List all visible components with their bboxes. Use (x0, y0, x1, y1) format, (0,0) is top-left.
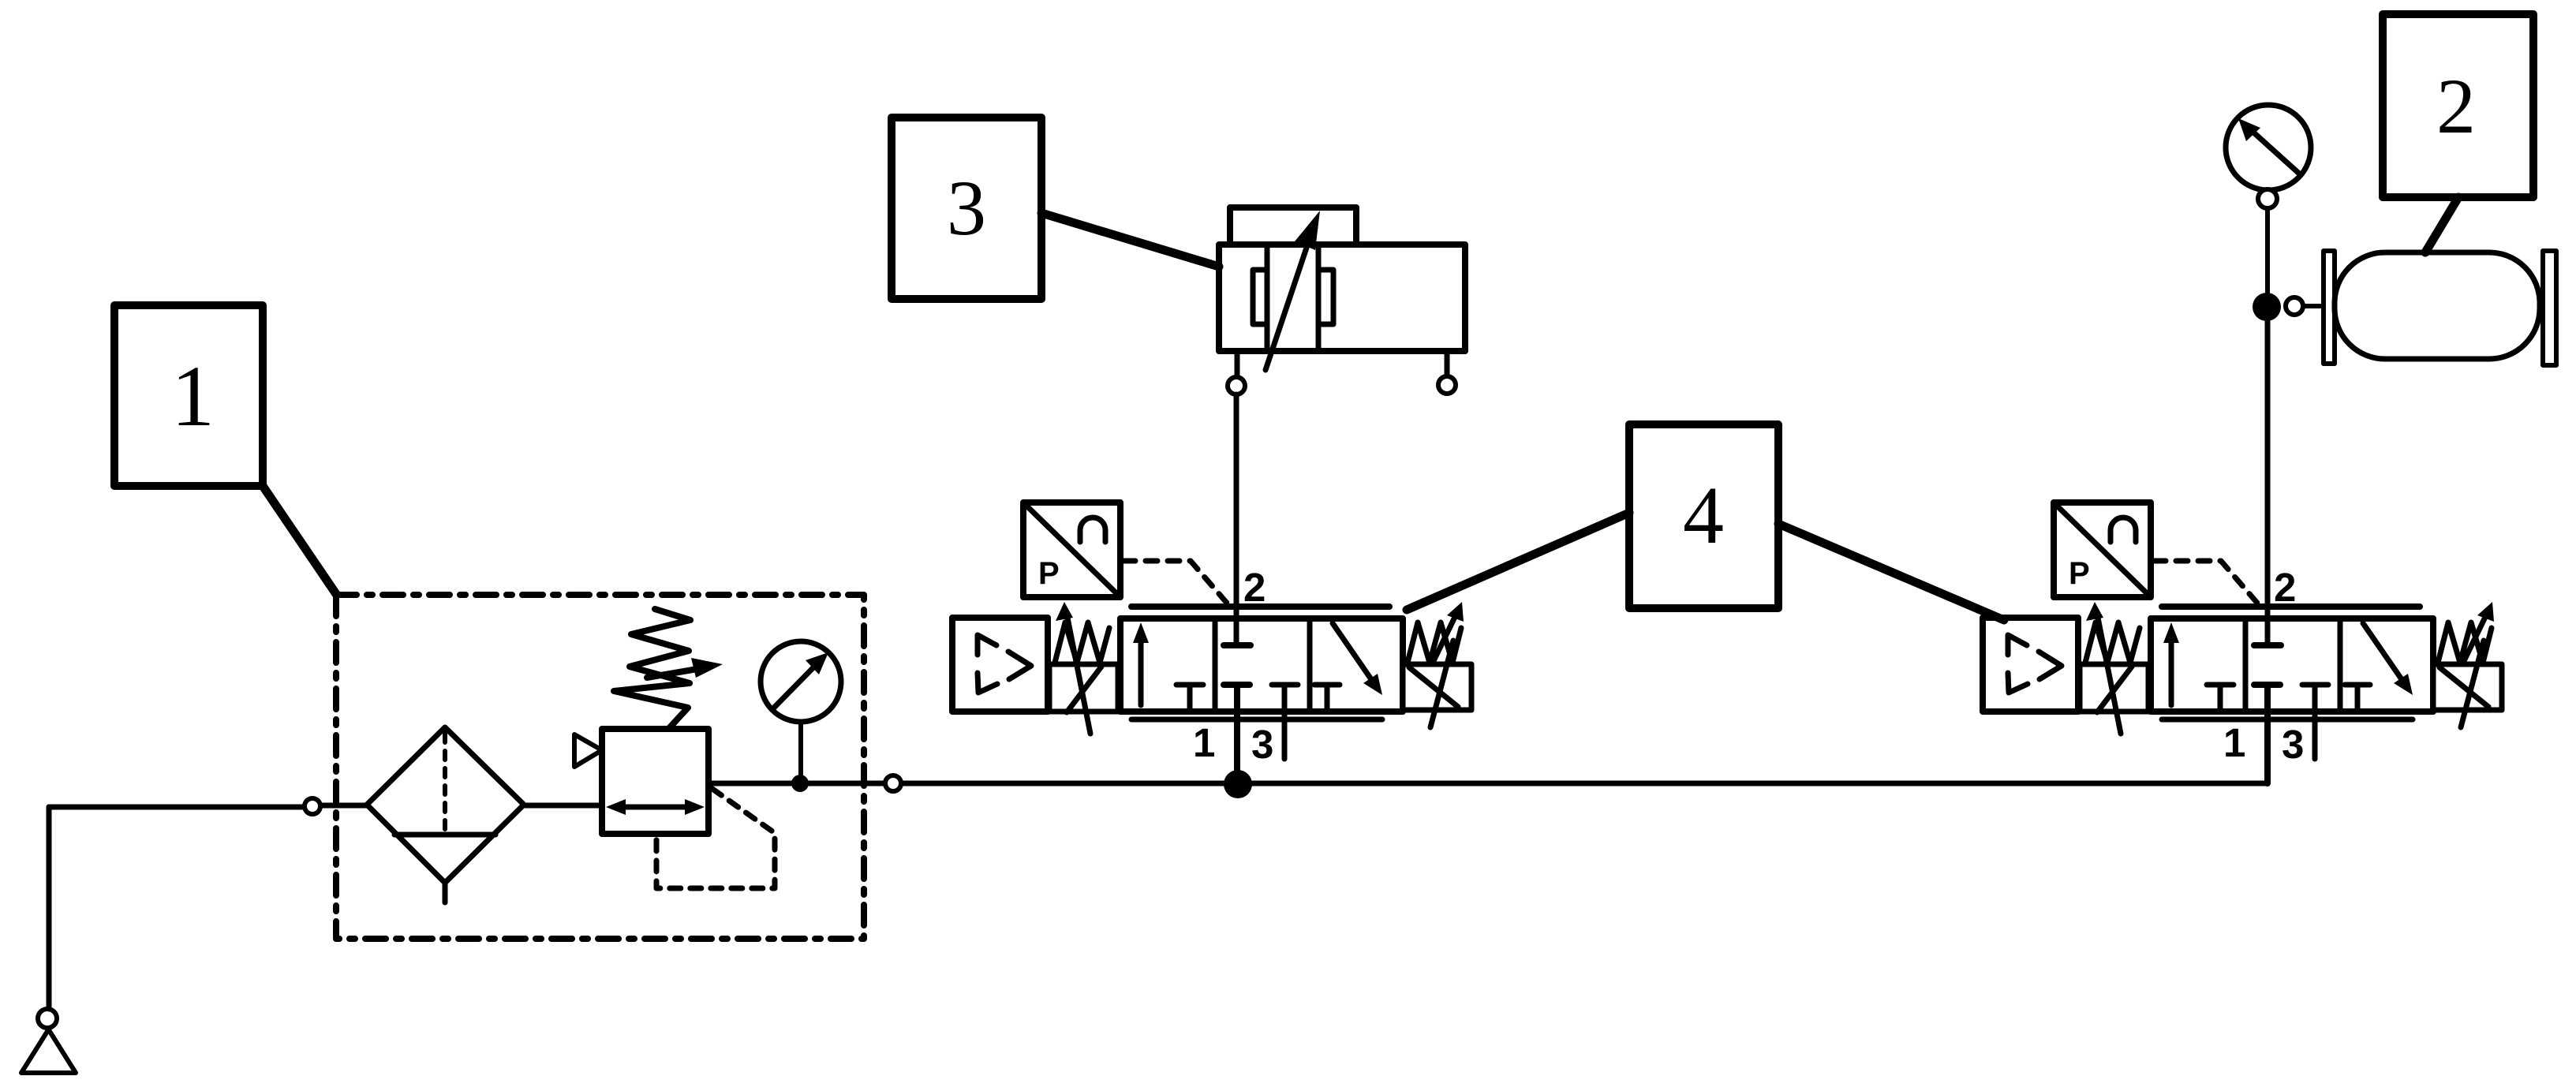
valve V2 position-3 blocked port (2345, 685, 2370, 708)
accumulator port circle (2286, 297, 2303, 315)
callout box 1 (114, 305, 263, 486)
valve V2 position-1 flow arrow (2163, 622, 2179, 705)
flow control adjustment arrow (1266, 211, 1320, 370)
valve V2 body (2151, 618, 2433, 712)
wire supply horizontal (49, 805, 304, 810)
valve V2 port 2 wire to accumulator node (2265, 316, 2271, 645)
svg-text:P: P (1038, 556, 1060, 591)
svg-text:1: 1 (171, 348, 215, 444)
valve V1 port 1 wire to junction (1234, 685, 1240, 776)
valve V1 position-3 blocked port (1314, 685, 1340, 708)
wire node to accumulator (2303, 304, 2328, 308)
valve V1 right spring box (1403, 602, 1471, 727)
valve V2 left spring box (2080, 602, 2148, 734)
wire gauge G2 to node (2265, 208, 2270, 298)
service unit enclosure (dash-dot) (336, 595, 864, 939)
filter F (367, 727, 524, 902)
valve V1 body (1120, 618, 1403, 712)
leader box 3 (1041, 213, 1219, 267)
leader box 1 (263, 486, 336, 594)
node junction accumulator (2253, 293, 2281, 321)
svg-text:3: 3 (947, 164, 986, 252)
valve V1 port 1 seat (1224, 682, 1250, 688)
valve V2 right spring box (2433, 602, 2502, 727)
svg-text:4: 4 (1683, 470, 1724, 561)
accumulator vessel (2335, 252, 2540, 359)
leader box 2 (2425, 197, 2458, 252)
valve V2 port 1 wire to main line (2264, 685, 2271, 783)
callout box 3 (892, 118, 1041, 299)
callout box 4 (1629, 424, 1778, 608)
valve V1 position-1 blocked port (1176, 685, 1203, 708)
flow control left port circle (1228, 377, 1245, 394)
leader box 4 right (1778, 524, 2004, 620)
valve V2 P/U converter box (2054, 503, 2151, 597)
valve V1 position-1 flow arrow (1133, 622, 1149, 705)
valve V1 port 3 seat (1272, 685, 1298, 759)
pressure regulator R (574, 729, 708, 834)
flow control right port stub (1445, 351, 1450, 375)
node junction main line to valve V1 (1224, 770, 1252, 798)
svg-text:2: 2 (2274, 565, 2296, 610)
valve V2 bottom proportional plate (2162, 717, 2413, 723)
wire gauge tap to outlet port (808, 781, 884, 786)
accumulator left flange (2324, 251, 2335, 364)
svg-text:2: 2 (1243, 565, 1266, 610)
valve V1 amplifier box (952, 618, 1048, 712)
pressure gauge G2 (2226, 105, 2311, 190)
valve V2 amplifier box (1983, 618, 2078, 712)
valve V2 position-3 flow arrow (2363, 623, 2413, 695)
svg-text:3: 3 (1251, 722, 1273, 767)
valve V1 top proportional plate (1131, 603, 1389, 610)
wire main supply line (902, 781, 2268, 786)
svg-text:1: 1 (1193, 720, 1215, 765)
valve V2 top proportional plate (2162, 603, 2420, 610)
leader box 4 left (1407, 513, 1629, 610)
valve V1 pilot dashed line (1123, 561, 1232, 609)
valve V2 pilot dashed line (2154, 561, 2263, 609)
svg-text:3: 3 (2282, 722, 2304, 767)
node gauge tap (791, 775, 809, 792)
wire flow valve to V1 port 2 (1234, 394, 1239, 645)
valve V1 left spring box (1049, 602, 1118, 734)
regulator pilot feedback (dashed) (656, 789, 775, 888)
valve V2 port 1 seat (2254, 682, 2280, 688)
valve V1 P/U converter box (1023, 503, 1120, 597)
flow control right port circle (1438, 376, 1456, 394)
flow control valve seats (1253, 270, 1333, 324)
callout box 2 (2383, 14, 2533, 197)
wire supply riser (47, 807, 52, 1009)
valve V2 position-1 blocked port (2207, 685, 2234, 708)
gauge G2 port circle (2258, 189, 2277, 208)
svg-text:P: P (2069, 556, 2090, 591)
valve V1 port 2 blocked symbol (1224, 642, 1251, 648)
pressure gauge G1 (761, 641, 841, 777)
flow control left port stub (1235, 351, 1240, 377)
valve V2 port 3 seat (2302, 685, 2328, 759)
compressed air source (21, 1009, 76, 1073)
flow control valve body (1219, 207, 1465, 351)
outlet port circle (885, 775, 901, 791)
wire filter to regulator (524, 803, 604, 809)
valve V1 position-3 flow arrow (1333, 623, 1382, 695)
wire inlet to filter (321, 803, 368, 809)
svg-text:1: 1 (2223, 720, 2245, 765)
regulator adjustment spring (614, 609, 723, 727)
wire regulator output (708, 781, 791, 786)
valve V2 port 2 blocked symbol (2254, 642, 2281, 648)
inlet port circle (305, 798, 320, 814)
accumulator right flange (2543, 251, 2556, 365)
valve V1 bottom proportional plate (1131, 717, 1382, 723)
svg-text:2: 2 (2436, 62, 2476, 150)
